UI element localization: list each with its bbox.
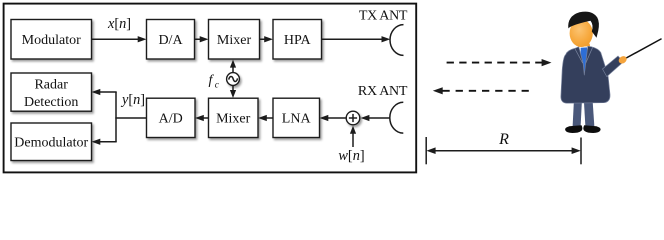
oscillator fc (227, 73, 240, 86)
svg-text:HPA: HPA (284, 33, 312, 48)
dimension tick right (580, 138, 582, 165)
block A/D (147, 98, 196, 137)
wire junction to Radar Detection (100, 91, 117, 93)
block D/A (147, 20, 195, 60)
block Demodulator (11, 123, 92, 161)
block Modulator (11, 20, 92, 60)
svg-text:Mixer: Mixer (216, 112, 251, 127)
svg-text:RX ANT: RX ANT (358, 84, 408, 99)
person forearm (603, 56, 624, 77)
wire HPA to TX antenna (322, 38, 383, 40)
svg-text:c: c (215, 81, 220, 91)
wire LNA to RX mixer (267, 117, 274, 119)
person shirt (578, 46, 589, 75)
RX antenna (390, 102, 403, 133)
person face (570, 20, 593, 47)
block HPA (273, 20, 322, 60)
TX antenna (390, 25, 404, 56)
person neck (579, 41, 590, 50)
svg-text:Mixer: Mixer (217, 33, 252, 48)
person (561, 12, 661, 133)
person lapels (575, 47, 593, 63)
wire RX antenna to adder (369, 117, 390, 119)
wire D/A to Mixer (195, 38, 201, 40)
block Mixer (TX) (209, 20, 260, 60)
block Mixer (RX) (209, 98, 259, 137)
svg-text:Radar: Radar (34, 77, 68, 92)
junction vertical wire (115, 92, 117, 142)
dimension tick left (425, 137, 427, 164)
svg-text:TX ANT: TX ANT (359, 8, 408, 23)
svg-text:D/A: D/A (158, 33, 183, 48)
person jacket (561, 46, 610, 103)
adder (346, 111, 360, 125)
block Radar Detection (11, 73, 92, 111)
svg-text:R: R (498, 131, 509, 148)
person tie (581, 47, 588, 75)
wire RX mixer to A/D (204, 117, 209, 119)
system frame (4, 4, 417, 173)
wire Modulator to D/A (92, 38, 139, 40)
wire adder to LNA (328, 117, 346, 119)
wire w[n] into adder (352, 134, 354, 148)
svg-text:Demodulator: Demodulator (14, 135, 88, 150)
wire junction to Demodulator (100, 141, 117, 143)
svg-text:f: f (209, 73, 215, 88)
dashed wave TX to person (447, 62, 542, 64)
wire oscillator to RX mixer (232, 86, 234, 91)
dimension arrow R (434, 150, 573, 152)
svg-text:x[n]: x[n] (107, 16, 131, 32)
svg-text:LNA: LNA (282, 112, 312, 127)
person pointer stick (624, 39, 662, 60)
person hair (568, 12, 599, 38)
wire A/D to junction (115, 117, 146, 119)
svg-text:Modulator: Modulator (22, 33, 81, 48)
block LNA (273, 98, 320, 137)
svg-text:A/D: A/D (159, 112, 183, 127)
svg-text:w[n]: w[n] (338, 148, 364, 164)
dashed wave person to RX (433, 87, 443, 94)
person shoes (565, 125, 582, 133)
svg-text:y[n]: y[n] (120, 92, 145, 108)
wire Mixer to HPA (260, 38, 266, 40)
person hand (617, 55, 628, 66)
person legs (573, 99, 583, 129)
wire oscillator to TX mixer (232, 67, 234, 73)
svg-text:Detection: Detection (24, 95, 78, 110)
